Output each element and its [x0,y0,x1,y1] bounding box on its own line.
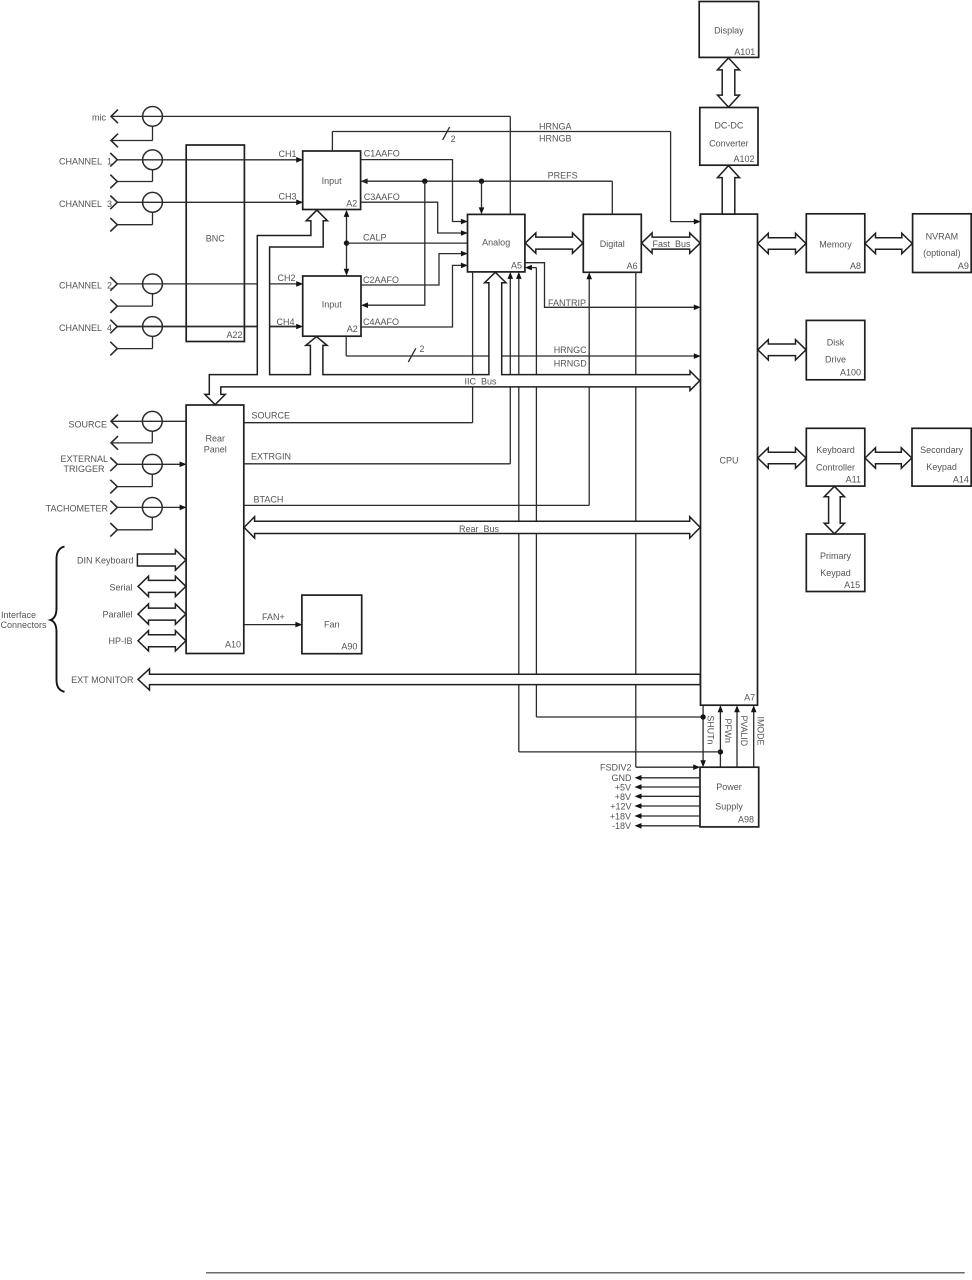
wire SHUTn CPU to Power Supply [702,705,704,761]
svg-text:Analog: Analog [482,237,510,247]
bus IIC with branches to Input boxes, Analog, Rear Panel, CPU [205,210,700,405]
svg-text:+18V: +18V [610,811,631,821]
bus EXT MONITOR from CPU [138,669,700,690]
svg-text:Keyboard: Keyboard [816,445,855,455]
wire CHANNEL 4 [117,326,297,328]
wire C4AAFO [361,265,462,327]
wire PVALID [736,711,738,768]
svg-text:Power: Power [716,782,742,792]
wire FSDIV2 from Digital to Power Supply [635,272,637,767]
svg-text:Panel: Panel [204,445,227,455]
wire CHANNEL 1 [117,159,297,161]
wire mic stub [152,126,154,140]
svg-text:PFWn: PFWn [723,719,733,744]
svg-text:Input: Input [322,299,343,309]
svg-text:2: 2 [420,344,425,354]
brace interface connectors [51,547,65,692]
svg-text:FAN+: FAN+ [262,612,285,622]
wire HRNGA/HRNGB bus to CPU [331,132,333,152]
bus CPU to DC-DC converter [718,166,740,214]
svg-text:+5V: +5V [615,782,631,792]
bus-width slash 2 (HRNGC/D) [408,348,416,362]
svg-text:Drive: Drive [825,355,846,365]
wire C2AAFO [361,254,462,285]
bus Parallel [138,604,186,624]
wire CHANNEL 3 [117,201,297,203]
wire PFWn branch to Analog [519,751,721,753]
wire PREFS branch to Analog top [481,181,483,209]
svg-text:Display: Display [714,26,744,36]
svg-text:EXTRGIN: EXTRGIN [251,452,291,462]
wire C3AAFO [361,202,462,233]
svg-text:Memory: Memory [819,240,852,250]
wire PREFS net [361,178,368,184]
wire IMODE [753,711,755,768]
block Digital A6 [583,214,641,272]
svg-text:A14: A14 [953,474,969,484]
svg-text:CH4: CH4 [276,317,294,327]
svg-text:A10: A10 [225,639,241,649]
bus Rear Bus Rear Panel to CPU [244,517,700,538]
svg-text:mic: mic [92,112,106,122]
svg-text:A22: A22 [226,330,242,340]
svg-text:Primary: Primary [820,551,851,561]
svg-text:EXTERNAL: EXTERNAL [60,454,108,464]
svg-text:CH2: CH2 [277,273,295,283]
svg-text:Parallel: Parallel [102,609,132,619]
bus CPU to Disk Drive [758,340,806,360]
bus-width slash 2 (HRNGA/B) [443,127,450,140]
svg-text:+12V: +12V [610,801,631,811]
svg-text:Keypad: Keypad [926,462,957,472]
svg-text:FANTRIP: FANTRIP [548,298,586,308]
wire power rail +5V [641,786,700,788]
wire FANTRIP [525,263,695,308]
bus DIN Keyboard into Rear Panel [137,550,186,570]
svg-text:A90: A90 [341,641,357,651]
svg-text:A8: A8 [850,261,861,271]
wire SHUTn branch from Analog [525,265,532,271]
svg-text:BTACH: BTACH [254,494,284,504]
block Input A2 (lower) [303,276,361,336]
svg-text:HP-IB: HP-IB [108,636,132,646]
wire power rail GND [641,777,700,779]
bus Keyboard Controller to Primary Keypad [824,486,844,534]
block Keyboard Controller A11 [806,428,865,486]
svg-text:DC-DC: DC-DC [714,121,743,131]
bus Keyboard Controller to Secondary Keypad [865,448,912,468]
wire FAN+ [244,624,297,626]
wire EXTRGIN [509,277,511,464]
svg-text:TRIGGER: TRIGGER [63,464,105,474]
svg-text:SHUTn: SHUTn [706,716,716,745]
svg-text:Fan: Fan [324,619,340,629]
svg-text:(optional): (optional) [923,248,961,258]
wire CALP between Input boxes and to Analog [346,215,348,270]
wire PFWn [719,711,721,768]
connector SOURCE circle row [111,420,186,422]
wire C1AAFO [361,160,462,222]
svg-text:Secondary: Secondary [920,445,964,455]
svg-text:HRNGB: HRNGB [539,134,572,144]
svg-text:PVALID: PVALID [739,716,749,747]
svg-text:FSDIV2: FSDIV2 [600,763,632,773]
block CPU A7 [701,214,758,705]
svg-text:-18V: -18V [612,821,631,831]
svg-text:C1AAFO: C1AAFO [364,148,400,158]
svg-text:CH1: CH1 [278,149,296,159]
svg-text:A98: A98 [738,814,754,824]
wire power rail +12V [641,805,700,807]
svg-text:TACHOMETER: TACHOMETER [46,503,109,513]
block Disk Drive A100 [806,320,865,379]
svg-text:Keypad: Keypad [820,568,851,578]
svg-text:Rear Bus: Rear Bus [459,524,500,534]
svg-text:Digital: Digital [600,239,625,249]
wire BTACH to Digital [244,504,589,506]
block Rear Panel A10 [186,405,244,654]
svg-text:A2: A2 [347,324,358,334]
svg-text:SOURCE: SOURCE [252,411,291,421]
svg-text:A2: A2 [346,198,357,208]
svg-text:+8V: +8V [615,792,631,802]
block Fan A90 [302,595,362,654]
bus Serial [138,576,186,596]
svg-text:Interface: Interface [1,610,36,620]
svg-text:CPU: CPU [719,456,738,466]
block Display A101 [699,2,759,58]
svg-text:A6: A6 [627,261,638,271]
connector TACHOMETER circle row [117,506,180,508]
block Secondary Keypad A14 [912,428,971,486]
bus HP-IB [138,631,186,651]
wire CHANNEL 2 [117,283,297,285]
svg-text:CHANNEL 1: CHANNEL 1 [59,156,112,166]
block Memory A8 [806,214,865,273]
svg-text:DIN Keyboard: DIN Keyboard [77,556,134,566]
svg-text:IMODE: IMODE [755,717,765,746]
svg-text:A100: A100 [840,368,861,378]
svg-text:HRNGC: HRNGC [554,345,587,355]
svg-text:C3AAFO: C3AAFO [364,192,400,202]
svg-text:Connectors: Connectors [1,620,48,630]
svg-text:Converter: Converter [709,139,749,149]
svg-text:HRNGD: HRNGD [554,358,587,368]
svg-text:CH3: CH3 [278,192,296,202]
svg-text:CHANNEL 2: CHANNEL 2 [59,280,112,290]
block Power Supply A98 [700,767,759,827]
svg-text:A11: A11 [846,474,861,484]
wire power rail +8V [641,795,700,797]
wire PREFS branch to Input2 [367,181,425,305]
svg-text:C4AAFO: C4AAFO [363,317,399,327]
wire power rail -18V [641,825,700,827]
svg-text:Fast Bus: Fast Bus [653,239,692,249]
svg-text:Rear: Rear [206,434,226,444]
bus Memory to NVRAM [865,233,912,253]
svg-text:PREFS: PREFS [548,170,578,180]
svg-text:Supply: Supply [715,801,743,811]
block DC-DC Converter A102 [700,108,758,166]
block Analog A5 [468,214,525,272]
bus CPU to Keyboard Controller [758,448,806,468]
block BNC A22 [186,145,244,342]
block Primary Keypad A15 [806,534,865,592]
svg-text:A7: A7 [744,693,755,703]
wire HRNGC/HRNGD bus to CPU [345,336,347,356]
connector mic circle [143,107,163,127]
svg-text:SOURCE: SOURCE [68,420,107,430]
svg-text:A15: A15 [844,580,860,590]
svg-text:IIC Bus: IIC Bus [465,377,498,387]
svg-text:A5: A5 [511,261,522,271]
bus Display to DC-DC converter [718,58,740,107]
svg-text:EXT MONITOR: EXT MONITOR [71,675,134,685]
svg-text:Disk: Disk [827,338,845,348]
svg-text:NVRAM: NVRAM [926,231,959,241]
svg-text:CALP: CALP [363,232,387,242]
svg-text:GND: GND [612,773,633,783]
svg-text:HRNGA: HRNGA [539,121,572,131]
svg-text:A102: A102 [733,154,754,164]
bus Fast Bus Digital to CPU [642,233,701,253]
block NVRAM A9 [913,214,972,273]
bus CPU to Memory [758,233,806,253]
svg-text:A9: A9 [958,261,969,271]
svg-text:CHANNEL 4: CHANNEL 4 [59,323,112,333]
svg-text:A101: A101 [734,47,755,57]
footer rule [206,1272,965,1274]
svg-text:Serial: Serial [109,582,132,592]
block Input A2 (upper) [303,151,361,210]
svg-text:Controller: Controller [816,463,855,473]
wire power rail +18V [641,815,700,817]
bus Analog to Digital [525,233,583,253]
svg-text:Input: Input [322,176,343,186]
connector EXTERNAL TRIGGER circle row [117,463,180,465]
svg-text:2: 2 [451,134,456,144]
svg-text:CHANNEL 3: CHANNEL 3 [59,199,112,209]
svg-text:BNC: BNC [206,234,226,244]
svg-text:C2AAFO: C2AAFO [363,275,399,285]
wire mic line to Analog top [111,115,510,117]
wire SOURCE internal [472,272,474,423]
